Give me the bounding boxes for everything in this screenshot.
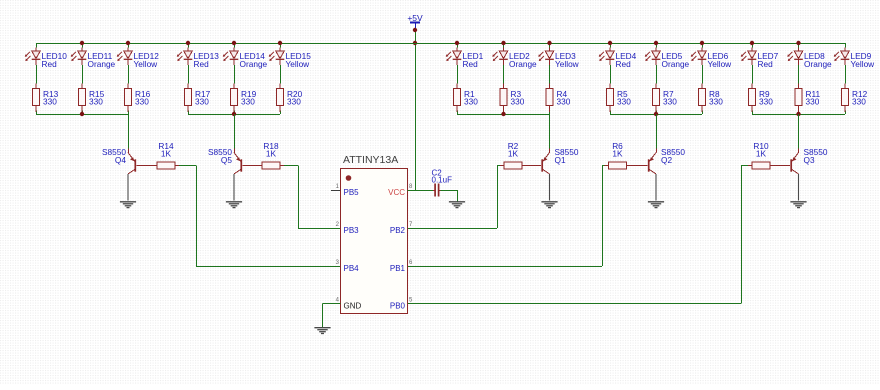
resistor R9 330 <box>748 84 773 113</box>
svg-text:330: 330 <box>135 96 149 106</box>
ground Q3 emitter <box>790 202 806 208</box>
svg-text:330: 330 <box>464 96 478 106</box>
svg-text:Red: Red <box>42 59 58 69</box>
transistor Q4 S8550 (PNP) <box>102 147 135 200</box>
svg-text:330: 330 <box>43 96 57 106</box>
svg-text:1K: 1K <box>161 149 172 159</box>
resistor R8 330 <box>698 84 723 113</box>
resistor R18 1K <box>258 141 284 169</box>
svg-text:1K: 1K <box>612 149 623 159</box>
+5V power port <box>407 13 423 30</box>
wire column LED5 <box>656 43 658 48</box>
wire column LED12 <box>128 43 130 48</box>
svg-text:+5V: +5V <box>407 13 423 23</box>
wire column LED9 <box>845 43 847 48</box>
LED LED13 (Red) <box>177 48 219 69</box>
IC U1 ATTINY13A <box>331 154 413 314</box>
wire PB1 (pin 6) to R6 <box>408 266 603 268</box>
junction rail/LED8 <box>796 41 800 45</box>
svg-text:PB1: PB1 <box>390 264 406 273</box>
junction +5V stub <box>413 28 417 32</box>
wire group bottom rail 3 <box>457 114 550 116</box>
resistor R4 330 <box>546 84 571 113</box>
junction rail/LED11 <box>80 41 84 45</box>
svg-text:Orange: Orange <box>662 59 690 69</box>
wire column LED11 <box>82 43 84 48</box>
resistor R3 330 <box>500 84 525 113</box>
svg-text:VCC: VCC <box>388 188 405 197</box>
svg-text:Orange: Orange <box>509 59 537 69</box>
resistor R7 330 <box>652 84 677 113</box>
LED LED2 (Orange) <box>492 48 537 69</box>
ground U1 GND <box>314 328 330 334</box>
wire R2 to Q1 base <box>526 165 541 167</box>
svg-text:Q3: Q3 <box>804 155 815 165</box>
LED LED10 (Red) <box>25 48 67 69</box>
svg-text:330: 330 <box>89 96 103 106</box>
capacitor C2 0.1uF <box>432 169 453 197</box>
ground C2 <box>449 202 465 208</box>
svg-text:Orange: Orange <box>88 59 116 69</box>
svg-text:Yellow: Yellow <box>555 59 580 69</box>
junction rail/LED6 <box>700 41 704 45</box>
wire R14 to PB4 (pin 3) <box>179 165 196 167</box>
ground Q2 emitter <box>648 202 664 208</box>
resistor R13 330 <box>32 84 58 113</box>
wire group bottom rail 4 <box>610 114 702 116</box>
resistor R10 1K <box>748 141 774 169</box>
wire +5V down to VCC net <box>415 30 417 190</box>
wire column LED10 <box>36 43 38 48</box>
svg-text:330: 330 <box>852 96 866 106</box>
resistor R15 330 <box>78 84 104 113</box>
svg-text:Orange: Orange <box>240 59 268 69</box>
svg-text:330: 330 <box>195 96 209 106</box>
svg-text:330: 330 <box>663 96 677 106</box>
wire column LED7 <box>752 43 754 48</box>
LED LED8 (Orange) <box>787 48 832 69</box>
svg-text:330: 330 <box>511 96 525 106</box>
resistor R1 330 <box>453 84 478 113</box>
wire column LED3 <box>549 43 551 48</box>
svg-text:PB2: PB2 <box>390 226 406 235</box>
wire column LED2 <box>503 43 505 48</box>
LED LED11 (Orange) <box>71 48 116 69</box>
svg-text:Q4: Q4 <box>115 155 126 165</box>
svg-text:PB3: PB3 <box>344 226 360 235</box>
svg-text:330: 330 <box>709 96 723 106</box>
svg-text:1K: 1K <box>508 149 519 159</box>
resistor R2 1K <box>500 141 526 169</box>
resistor R17 330 <box>184 84 210 113</box>
ground Q1 emitter <box>541 202 557 208</box>
junction rail/LED4 <box>608 41 612 45</box>
wire group bottom rail 5 <box>752 114 845 116</box>
wire Q5 base to R18 <box>242 165 258 167</box>
wire group bottom rail 1 <box>36 114 128 116</box>
transistor Q1 S8550 (PNP) <box>542 147 579 200</box>
LED LED5 (Orange) <box>645 48 690 69</box>
wire column LED1 <box>457 43 459 48</box>
junction rail/LED3 <box>547 41 551 45</box>
transistor Q3 S8550 (PNP) <box>791 147 828 200</box>
LED LED12 (Yellow) <box>117 48 159 69</box>
junction rail/LED15 <box>278 41 282 45</box>
junction rail/LED7 <box>750 41 754 45</box>
wire column LED15 <box>280 43 282 48</box>
junction rail/LED13 <box>186 41 190 45</box>
svg-text:Q5: Q5 <box>221 155 232 165</box>
wire group 4 to transistor <box>656 114 658 153</box>
svg-text:1K: 1K <box>756 149 767 159</box>
svg-text:330: 330 <box>759 96 773 106</box>
wire PB2 (pin 7) to R2 <box>408 228 498 230</box>
wire R6 to Q2 base <box>631 165 648 167</box>
svg-text:Q1: Q1 <box>555 155 566 165</box>
junction +5V / top rail <box>413 41 417 45</box>
wire GND (pin 4) to ground <box>323 303 341 305</box>
junction rail/LED1 <box>455 41 459 45</box>
LED LED7 (Red) <box>741 48 779 69</box>
wire C2 to ground <box>441 190 458 192</box>
svg-text:330: 330 <box>557 96 571 106</box>
svg-text:Red: Red <box>616 59 632 69</box>
svg-text:Yellow: Yellow <box>286 59 311 69</box>
wire R18 to PB3 (pin 2) <box>284 165 298 167</box>
wire group 1 to transistor <box>128 114 130 153</box>
svg-text:PB4: PB4 <box>344 264 360 273</box>
wire R10 to Q3 base <box>774 165 790 167</box>
wire +5V top rail <box>36 43 845 45</box>
transistor Q5 S8550 (PNP) <box>208 147 241 200</box>
resistor R11 330 <box>795 84 821 113</box>
svg-text:Yellow: Yellow <box>134 59 159 69</box>
wire column LED13 <box>188 43 190 48</box>
LED LED1 (Red) <box>446 48 484 69</box>
LED LED6 (Yellow) <box>691 48 732 69</box>
LED LED3 (Yellow) <box>538 48 579 69</box>
wire group 5 to transistor <box>798 114 800 153</box>
transistor Q2 S8550 (PNP) <box>649 147 686 200</box>
wire Q4 base to R14 <box>136 165 153 167</box>
wire column LED4 <box>610 43 612 48</box>
junction bottom rail 1 <box>80 112 84 116</box>
resistor R16 330 <box>124 84 150 113</box>
ground Q5 emitter <box>226 202 242 208</box>
wire group 3 to transistor <box>549 114 551 153</box>
svg-text:Yellow: Yellow <box>708 59 733 69</box>
svg-text:330: 330 <box>287 96 301 106</box>
svg-text:Red: Red <box>758 59 774 69</box>
svg-text:Orange: Orange <box>804 59 832 69</box>
resistor R5 330 <box>606 84 631 113</box>
svg-text:330: 330 <box>241 96 255 106</box>
svg-text:330: 330 <box>617 96 631 106</box>
wire column LED8 <box>798 43 800 48</box>
wire column LED14 <box>234 43 236 48</box>
svg-text:Q2: Q2 <box>661 155 672 165</box>
junction bottom rail 4 <box>654 112 658 116</box>
resistor R6 1K <box>605 141 631 169</box>
wire column LED6 <box>702 43 704 48</box>
svg-text:1K: 1K <box>266 149 277 159</box>
wire VCC (pin 8) to C2 <box>408 190 434 192</box>
wire group 2 to transistor <box>234 114 236 153</box>
junction rail/LED12 <box>126 41 130 45</box>
resistor R14 1K <box>153 141 179 169</box>
junction bottom rail 2 <box>232 112 236 116</box>
svg-text:PB5: PB5 <box>344 188 360 197</box>
junction bottom rail 5 <box>796 112 800 116</box>
LED LED15 (Yellow) <box>269 48 311 69</box>
svg-text:Yellow: Yellow <box>851 59 876 69</box>
svg-text:330: 330 <box>806 96 820 106</box>
resistor R12 330 <box>841 84 867 113</box>
svg-text:Red: Red <box>463 59 479 69</box>
LED LED4 (Red) <box>599 48 637 69</box>
svg-text:GND: GND <box>344 302 362 311</box>
svg-text:Red: Red <box>194 59 210 69</box>
junction rail/LED5 <box>654 41 658 45</box>
svg-text:PB0: PB0 <box>390 302 406 311</box>
svg-text:ATTINY13A: ATTINY13A <box>343 154 398 166</box>
LED LED9 (Yellow) <box>834 48 875 69</box>
junction rail/LED14 <box>232 41 236 45</box>
resistor R19 330 <box>230 84 256 113</box>
wire PB0 (pin 5) to R10 <box>408 303 742 305</box>
LED LED14 (Orange) <box>223 48 268 69</box>
junction bottom rail 3 <box>501 112 505 116</box>
wire group bottom rail 2 <box>188 114 280 116</box>
ground Q4 emitter <box>120 202 136 208</box>
resistor R20 330 <box>276 84 302 113</box>
svg-text:0.1uF: 0.1uF <box>432 176 453 185</box>
junction rail/LED2 <box>501 41 505 45</box>
